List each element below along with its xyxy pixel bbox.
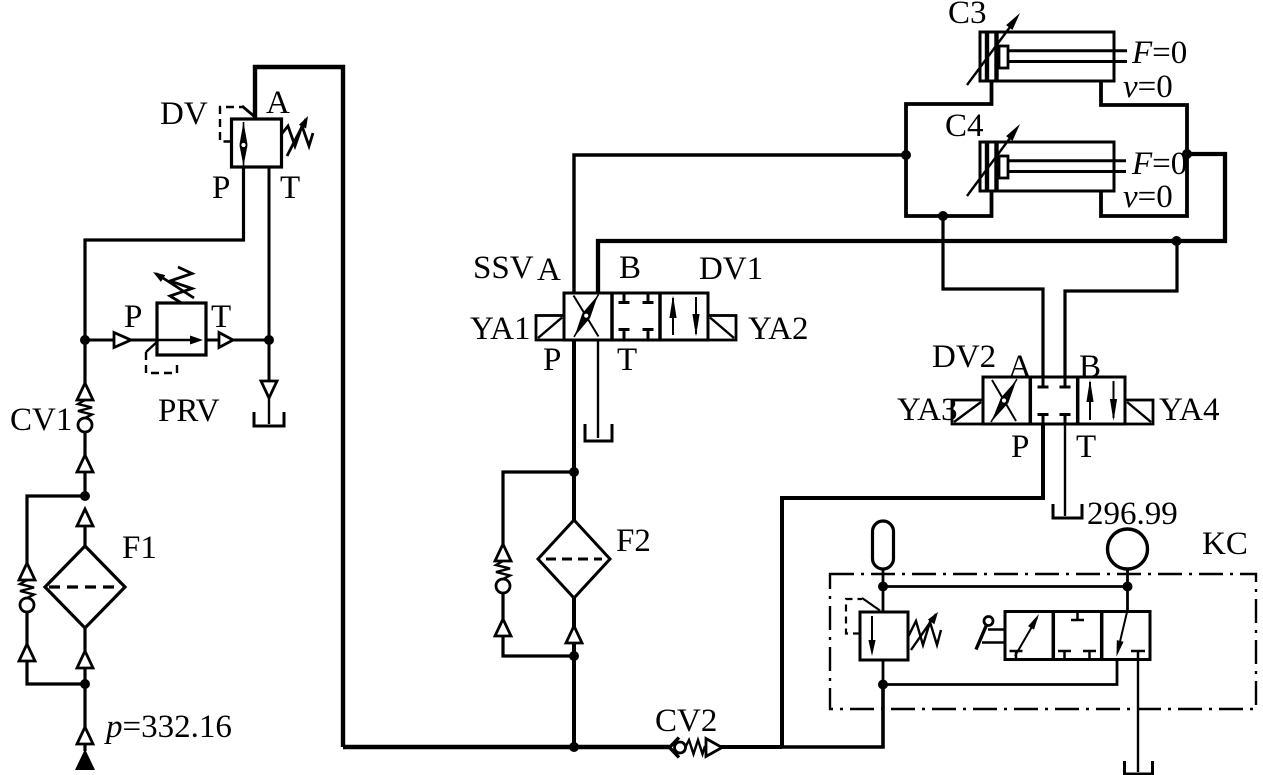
valve PRV body	[157, 303, 206, 355]
svg-text:F2: F2	[616, 523, 651, 559]
flow arrow below F2	[566, 626, 582, 643]
node B-line junction on right loop	[1182, 149, 1192, 159]
cylinder C3 rod	[1008, 51, 1127, 62]
svg-text:F=0: F=0	[1131, 35, 1187, 71]
wire F1 bypass branch left	[27, 496, 85, 563]
valve PRV spring with adjust arrow	[153, 267, 194, 303]
svg-text:F1: F1	[122, 530, 157, 566]
solenoid YA3	[952, 400, 983, 424]
tank symbol below KC	[1125, 761, 1153, 774]
solenoid YA4	[1125, 400, 1153, 424]
svg-text:B: B	[1079, 349, 1101, 385]
control block KC boundary (dash-dot)	[830, 574, 1256, 709]
check valve CV1 (spring loaded)	[77, 383, 93, 455]
svg-text:KC: KC	[1202, 526, 1248, 562]
svg-text:296.99: 296.99	[1087, 496, 1178, 532]
svg-text:DV: DV	[160, 96, 208, 132]
wire pilot valve drain to tank	[1137, 660, 1139, 773]
svg-text:T: T	[617, 342, 637, 378]
wire relief valve outlet	[882, 660, 885, 685]
node gauge junction	[1123, 582, 1133, 592]
valve PRV internal arrow	[157, 336, 203, 345]
wire DV port T down to PRV outlet node	[268, 167, 271, 340]
svg-text:A: A	[1008, 349, 1032, 385]
DV2 middle box blocked ports	[1038, 377, 1071, 424]
SSV right box parallel arrows	[669, 296, 699, 337]
bypass check valve of F1	[19, 563, 85, 684]
svg-text:T: T	[280, 170, 300, 206]
svg-text:P: P	[124, 299, 142, 335]
pump source filled arrow	[75, 744, 95, 770]
wire SSV port P down through F2 to bottom bus	[572, 340, 576, 747]
wire DV2 port B to B bus junction	[1065, 241, 1177, 377]
accumulator	[873, 521, 894, 569]
pilot valve left box blocked port	[1010, 651, 1023, 660]
wire below F1	[83, 628, 86, 651]
bottom bus wire left of CV2	[343, 745, 670, 749]
flow arrow before PRV	[114, 333, 131, 348]
svg-text:YA2: YA2	[748, 311, 809, 347]
cylinder C3 rod collar	[999, 46, 1008, 68]
solenoid YA1	[536, 316, 564, 341]
wire DV2 port A to left loop junction	[943, 216, 1043, 377]
node PRV inlet junction	[80, 335, 90, 345]
svg-text:T: T	[211, 299, 231, 335]
svg-text:P: P	[543, 342, 561, 378]
relief valve in KC body	[860, 612, 908, 660]
svg-text:T: T	[1076, 429, 1096, 465]
flow arrow above F1	[77, 509, 93, 526]
valve SSV/DV1 body (4/2 solenoid valve)	[564, 293, 708, 340]
wire down to pump source	[83, 684, 86, 727]
node F2 trunk on bottom bus	[569, 742, 579, 752]
node A-line junction on left loop	[901, 150, 911, 160]
filter F2	[538, 520, 610, 598]
pilot valve right box blocked port	[1131, 651, 1145, 660]
svg-text:A: A	[266, 85, 290, 121]
tank symbol under PRV	[254, 412, 284, 426]
valve PRV (pressure relief valve) inlet wire	[85, 339, 157, 342]
svg-text:DV1: DV1	[699, 251, 763, 287]
svg-text:P: P	[1011, 429, 1029, 465]
DV2 right box parallel arrows	[1086, 380, 1117, 422]
wire gauge manifold	[883, 585, 1128, 588]
wire SSV port T to tank	[597, 340, 599, 438]
flow arrow after PRV	[219, 333, 233, 348]
bypass check valve of F2	[495, 544, 574, 656]
svg-text:YA1: YA1	[470, 311, 531, 347]
node F2 bottom junction	[569, 651, 579, 661]
valve DV adjustable spring	[282, 116, 314, 156]
cylinder C3 body	[980, 32, 1114, 81]
wire accumulator to relief valve	[882, 569, 885, 612]
wire SSV port B up and right to cylinder right loop	[598, 154, 1225, 293]
node F1 bypass bottom junction	[80, 679, 90, 689]
relief valve pilot line (dashed)	[846, 598, 880, 634]
svg-text:A: A	[537, 252, 561, 288]
wire riser to DV2 port P	[782, 424, 1043, 747]
wire right loop to B riser	[1187, 152, 1225, 156]
pilot valve (3-position lever valve) body	[1005, 612, 1150, 660]
svg-text:YA3: YA3	[897, 392, 958, 428]
pilot valve middle box blocked ports	[1058, 612, 1096, 660]
wire F2 bypass branch	[503, 472, 574, 544]
node F1 bypass top junction	[80, 491, 90, 501]
valve DV (pressure reducing valve) body	[232, 119, 282, 167]
wire to bypass bottom junction	[83, 668, 86, 684]
svg-text:CV2: CV2	[655, 703, 717, 739]
wire DV2 port T to tank	[1064, 424, 1066, 516]
pilot valve left box arrow	[1015, 614, 1039, 656]
wire SSV port A up and right to cylinder loop	[574, 155, 906, 293]
cylinder C3 piston	[987, 32, 997, 81]
wire left loop connecting C3 and C4 rod-side ports	[906, 81, 992, 216]
relief valve spring with adjust arrow	[908, 612, 941, 650]
flow arrow above pump source	[77, 727, 93, 744]
wire to F1 top junction	[83, 472, 86, 496]
wire DV port P to left trunk	[85, 167, 244, 383]
valve DV pilot line (dashed)	[220, 106, 255, 142]
filter F1	[45, 546, 125, 628]
drain arrow below PRV outlet	[261, 340, 277, 424]
wire relief outlet to pilot valve port	[883, 660, 1117, 685]
node DV2-A junction on left loop	[938, 211, 948, 221]
node accumulator junction	[878, 582, 888, 592]
wire into F1	[83, 526, 86, 546]
pressure gauge	[1108, 529, 1148, 569]
node relief outlet junction	[878, 680, 888, 690]
svg-text:YA4: YA4	[1159, 392, 1220, 428]
SSV middle box blocked ports	[619, 293, 654, 340]
solenoid YA2	[708, 316, 736, 341]
tank symbol under SSV	[585, 424, 612, 441]
tank symbol under DV2	[1053, 504, 1082, 518]
cylinder C4 cushion adjust arrow	[967, 124, 1020, 196]
svg-text:CV1: CV1	[10, 402, 72, 438]
flow arrow below F1	[77, 651, 93, 668]
svg-text:F=0: F=0	[1131, 146, 1187, 182]
svg-text:P: P	[212, 170, 230, 206]
node F2 top junction	[569, 467, 579, 477]
bottom bus wire right of CV2	[720, 745, 782, 749]
wire into control block KC	[782, 685, 883, 748]
valve DV internal arrow	[240, 122, 248, 166]
SSV crossed-flow box arrows	[574, 295, 599, 338]
valve PRV pilot line (dashed)	[146, 341, 177, 373]
svg-text:p=332.16: p=332.16	[104, 709, 232, 745]
svg-text:C3: C3	[948, 0, 987, 31]
DV2 crossed-flow box arrows	[991, 379, 1017, 422]
cylinder C3 cushion adjust arrow	[967, 13, 1020, 85]
wire from DV port A up and right, long vertical down to bottom bus	[255, 67, 343, 747]
wire gauge riser into pilot valve	[1126, 569, 1129, 612]
node DV2-B junction on B bus	[1172, 236, 1182, 246]
svg-text:v=0: v=0	[1123, 179, 1173, 215]
valve PRV outlet wire	[206, 339, 269, 342]
pilot valve right box arrow	[1117, 612, 1128, 657]
svg-text:DV2: DV2	[932, 339, 996, 375]
svg-text:PRV: PRV	[158, 393, 220, 429]
svg-text:v=0: v=0	[1123, 69, 1173, 105]
cylinder C4 rod collar	[999, 156, 1008, 178]
valve DV2 body (4/3 solenoid valve)	[983, 377, 1125, 424]
wire right loop connecting C3 and C4 cap-side ports	[1101, 81, 1187, 216]
node PRV outlet junction	[264, 335, 274, 345]
cylinder C4 rod	[1008, 161, 1126, 172]
svg-text:SSV: SSV	[473, 250, 534, 286]
relief valve internal arrow	[868, 616, 875, 656]
cylinder C4 piston	[987, 142, 997, 191]
svg-text:C4: C4	[945, 108, 984, 144]
check valve CV2	[670, 738, 723, 758]
cylinder C4 body	[980, 142, 1114, 191]
svg-text:B: B	[619, 250, 641, 286]
flow arrow below CV1	[77, 455, 93, 472]
lever operator	[976, 617, 1005, 650]
